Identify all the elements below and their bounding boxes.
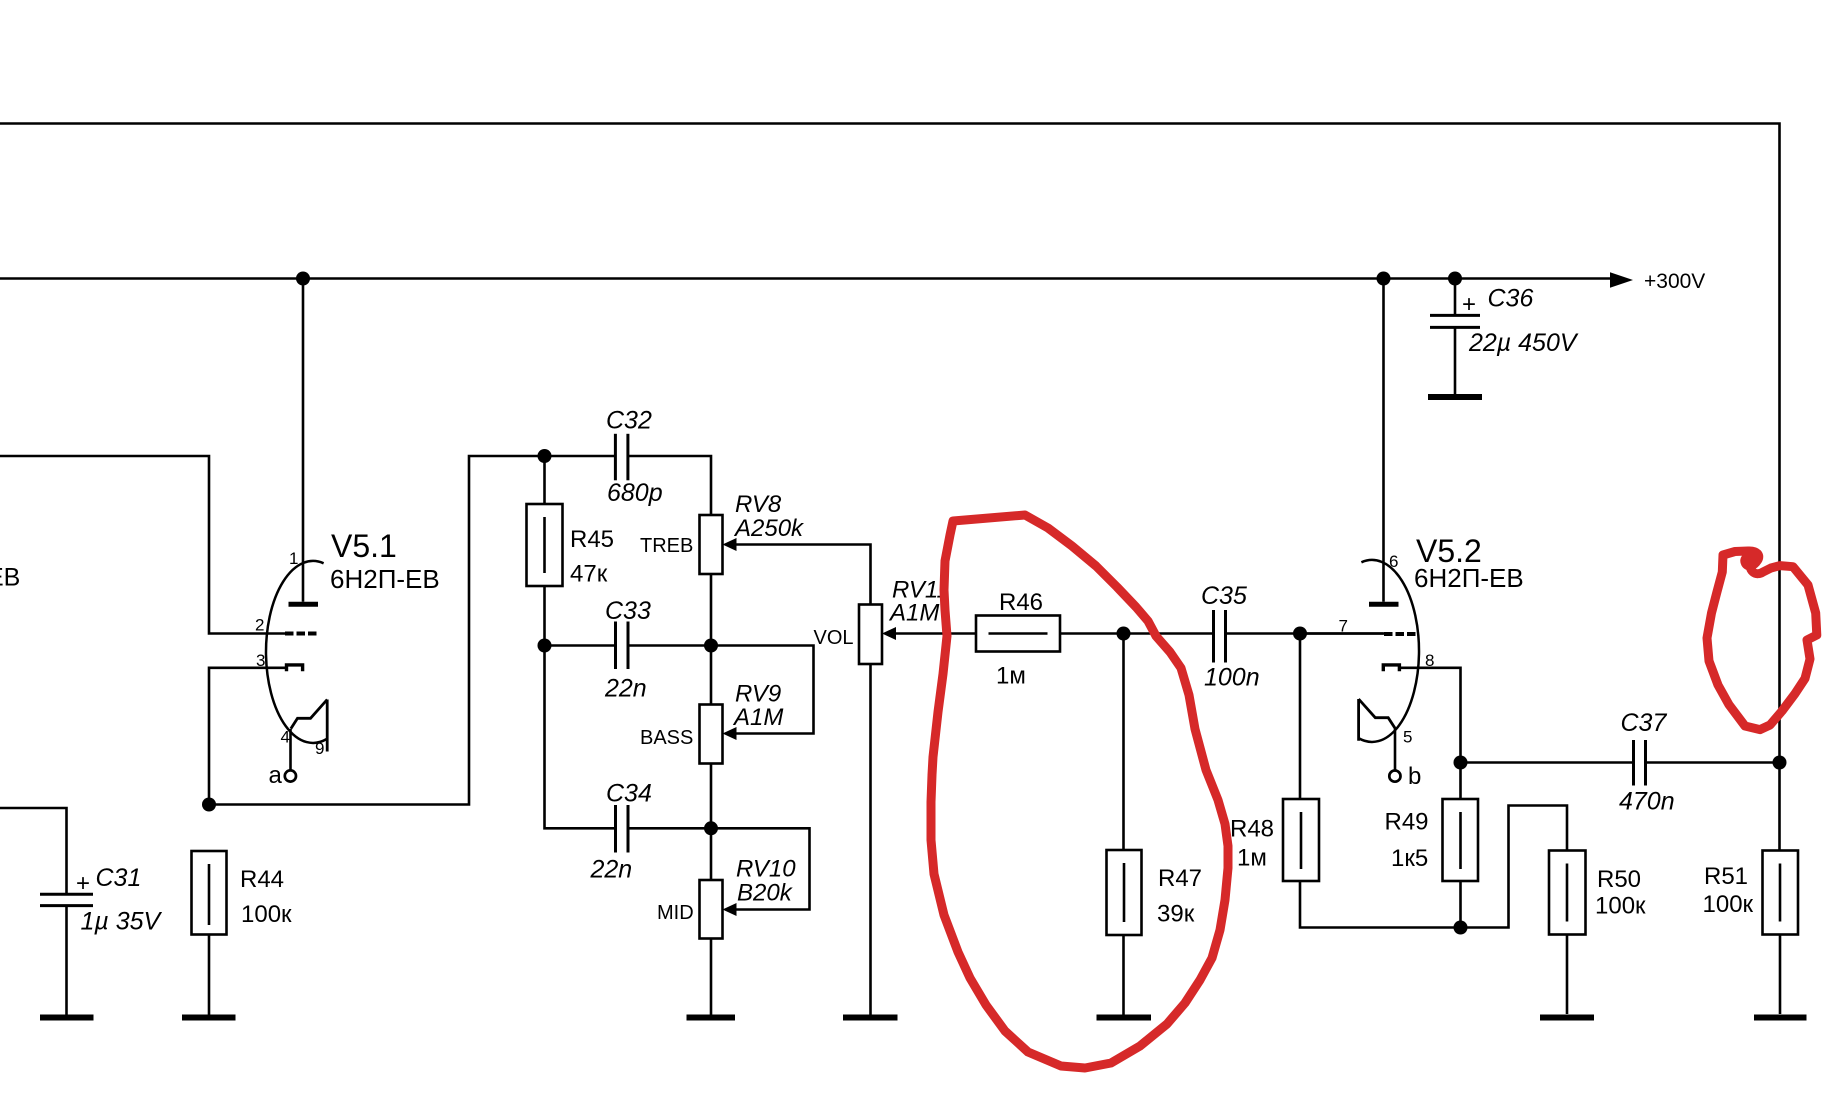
junction node C35 R48 grid — [1293, 627, 1307, 641]
svg-text:C35: C35 — [1201, 582, 1247, 610]
svg-text:R50: R50 — [1597, 866, 1641, 893]
svg-text:+300V: +300V — [1644, 270, 1705, 293]
junction node C37 R51 — [1773, 756, 1787, 770]
svg-text:100к: 100к — [1703, 891, 1754, 918]
svg-text:C32: C32 — [606, 407, 652, 435]
ground RV11 — [843, 1015, 898, 1021]
wire left input to V5.1 grid pin 2 — [0, 456, 286, 634]
tube V5.2 plate — [1369, 602, 1399, 607]
ground RV10 — [687, 1015, 736, 1021]
svg-text:RV8: RV8 — [735, 491, 782, 518]
potentiometer RV9 BASS — [640, 646, 783, 829]
svg-text:b: b — [1408, 763, 1421, 790]
junction node C33 RV8 RV9 — [704, 639, 718, 653]
tube V5.2 grid dashes — [1384, 632, 1416, 636]
svg-text:5: 5 — [1403, 728, 1412, 747]
capacitor C32 — [545, 407, 712, 516]
red annotation circle near R51 top — [1707, 551, 1817, 730]
junction node R45 C33 C34 — [538, 639, 552, 653]
junction node V5.1 cathode R44 — [202, 798, 216, 812]
ground R50 — [1540, 1015, 1594, 1021]
resistor R46 — [976, 589, 1214, 690]
svg-text:C34: C34 — [606, 780, 652, 808]
capacitor C33 — [545, 597, 712, 703]
svg-text:100к: 100к — [241, 901, 292, 928]
svg-text:C33: C33 — [605, 597, 651, 625]
svg-text:1к5: 1к5 — [1391, 845, 1428, 872]
svg-text:+: + — [1462, 291, 1476, 318]
tube V5.1 grid dashes — [285, 632, 317, 636]
svg-text:R49: R49 — [1385, 809, 1429, 836]
wire pin 4 lead — [289, 729, 292, 770]
svg-text:22µ 450V: 22µ 450V — [1468, 329, 1579, 357]
svg-text:C36: C36 — [1488, 285, 1534, 313]
capacitor C37 — [1461, 709, 1780, 816]
junction node V5.2 plate rail — [1377, 272, 1391, 286]
svg-text:R48: R48 — [1230, 816, 1274, 843]
wire RV8 bottom lead — [710, 574, 713, 646]
wire V5.2 cathode pin 8 to R49 — [1400, 668, 1461, 799]
svg-text:2: 2 — [255, 616, 264, 635]
svg-text:47к: 47к — [570, 561, 608, 588]
svg-text:9: 9 — [315, 739, 324, 758]
capacitor C31 — [40, 864, 163, 1015]
junction node cathode R49 C37 — [1454, 756, 1468, 770]
wire pin 5 lead — [1394, 728, 1397, 770]
wire V5.2 grid pin 7 — [1300, 632, 1384, 635]
svg-text:1µ 35V: 1µ 35V — [81, 908, 163, 936]
wire +300V rail — [0, 277, 1611, 280]
wire V5.2 plate lead — [1382, 279, 1385, 602]
svg-text:RV10: RV10 — [736, 856, 796, 883]
wire node C33 to RV9 wiper — [711, 646, 814, 734]
tube V5.2 cathode — [1383, 665, 1399, 671]
wire V5.1 cathode pin 3 to node and feedback loop to C32 node — [209, 456, 545, 805]
wire C31 top lead — [0, 808, 67, 893]
terminal b — [1389, 771, 1400, 782]
svg-text:1: 1 — [289, 549, 298, 568]
terminal a — [285, 770, 296, 781]
svg-text:+: + — [76, 870, 90, 897]
wire C36 top lead — [1454, 279, 1457, 315]
svg-text:VOL: VOL — [814, 627, 854, 649]
junction node R48 R49 R50 — [1454, 921, 1468, 935]
wire node C34 to RV10 wiper — [711, 828, 810, 909]
svg-text:100n: 100n — [1204, 664, 1260, 692]
svg-text:C37: C37 — [1621, 709, 1668, 737]
junction node C32 R45 — [538, 449, 552, 463]
svg-text:V5.1: V5.1 — [331, 528, 397, 564]
svg-text:22n: 22n — [590, 856, 633, 884]
svg-text:R51: R51 — [1704, 863, 1748, 890]
junction node C34 RV9 RV10 — [704, 821, 718, 835]
svg-text:100к: 100к — [1595, 893, 1646, 920]
svg-text:680p: 680p — [607, 479, 663, 507]
junction node R46 R47 — [1117, 627, 1131, 641]
svg-text:6Н2П-ЕВ: 6Н2П-ЕВ — [330, 564, 440, 594]
capacitor C35 — [1201, 582, 1384, 692]
svg-text:39к: 39к — [1157, 901, 1195, 928]
junction node C36 rail — [1448, 272, 1462, 286]
resistor R51 — [1703, 851, 1799, 1015]
svg-text:A250k: A250k — [733, 515, 805, 542]
ground R47 — [1097, 1015, 1152, 1021]
svg-text:A1M: A1M — [888, 600, 939, 627]
ground R44 — [182, 1015, 236, 1021]
tube V5.1 heater — [291, 700, 327, 752]
junction node V5.1 plate rail — [296, 272, 310, 286]
tube V5.1 envelope arc — [266, 561, 327, 743]
svg-text:B20k: B20k — [737, 880, 794, 907]
wire V5.1 plate lead — [302, 279, 305, 602]
resistor R45 — [527, 456, 615, 646]
svg-text:1м: 1м — [1237, 845, 1267, 872]
potentiometer RV11 VOL — [814, 577, 977, 1016]
svg-text:ЕВ: ЕВ — [0, 564, 20, 592]
svg-text:C31: C31 — [96, 864, 142, 892]
red annotation circle around R46 R47 — [931, 515, 1228, 1068]
wire R49 node to R50 top — [1461, 806, 1568, 928]
svg-text:6Н2П-ЕВ: 6Н2П-ЕВ — [1414, 563, 1524, 593]
potentiometer RV10 MID — [657, 828, 796, 1015]
svg-text:MID: MID — [657, 902, 694, 924]
resistor R49 — [1385, 799, 1479, 928]
tube V5.2 envelope arc — [1358, 560, 1419, 742]
wire top rail to R51 top — [0, 124, 1780, 851]
tube V5.1 plate — [289, 602, 319, 607]
svg-text:R45: R45 — [570, 526, 614, 553]
resistor R47 — [1107, 634, 1203, 1016]
ground C36 — [1428, 394, 1482, 400]
svg-text:R47: R47 — [1158, 865, 1202, 892]
svg-text:8: 8 — [1425, 651, 1434, 670]
capacitor C36 — [1430, 285, 1579, 395]
arrowhead +300V — [1610, 272, 1633, 288]
svg-text:22n: 22n — [604, 675, 647, 703]
resistor R50 — [1549, 851, 1646, 1015]
svg-text:R44: R44 — [240, 866, 284, 893]
svg-text:TREB: TREB — [640, 535, 693, 557]
potentiometer RV8 TREB — [640, 491, 871, 605]
resistor R44 — [192, 851, 293, 1015]
svg-text:R46: R46 — [999, 589, 1043, 616]
resistor R48 — [1230, 634, 1461, 928]
svg-text:6: 6 — [1389, 552, 1398, 571]
ground C31 — [40, 1015, 94, 1021]
svg-text:A1M: A1M — [732, 704, 783, 731]
svg-text:a: a — [269, 762, 283, 789]
tube V5.2 heater — [1359, 699, 1395, 741]
svg-text:3: 3 — [256, 651, 265, 670]
svg-text:4: 4 — [281, 728, 290, 747]
tube V5.1 cathode — [287, 665, 303, 671]
svg-text:1м: 1м — [996, 663, 1026, 690]
capacitor C34 — [545, 646, 712, 884]
svg-text:BASS: BASS — [640, 727, 693, 749]
ground R51 — [1754, 1015, 1807, 1021]
svg-text:7: 7 — [1339, 617, 1348, 636]
svg-text:470n: 470n — [1619, 788, 1675, 816]
